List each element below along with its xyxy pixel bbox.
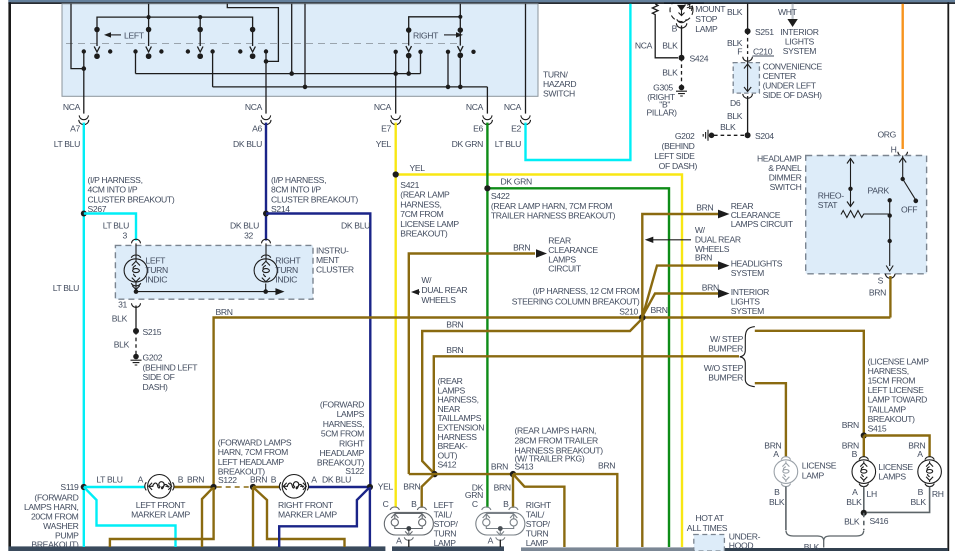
wire contact to crossover bus lower bbox=[212, 52, 214, 87]
w/ step bumper label bbox=[708, 334, 743, 354]
pin label A (left tail) bbox=[396, 535, 402, 545]
svg-text:F: F bbox=[737, 46, 742, 56]
svg-text:CLUSTER BREAKOUT): CLUSTER BREAKOUT) bbox=[271, 194, 358, 204]
svg-text:LAMPS: LAMPS bbox=[337, 409, 365, 419]
wire BLK pin31 to S215 bbox=[135, 306, 137, 332]
wire BLK S251 to C210 dashed bbox=[747, 31, 749, 54]
svg-text:BREAKOUT): BREAKOUT) bbox=[400, 229, 448, 239]
brace step bumper options bbox=[740, 327, 755, 387]
wire color label YEL (branch) bbox=[410, 163, 426, 173]
pin label A (right marker) bbox=[311, 475, 317, 485]
left bank bus wire bbox=[97, 17, 253, 29]
wire color label ORG bbox=[877, 129, 896, 139]
rear clearance lamps circuit label (right) bbox=[731, 201, 794, 229]
wire WHT stub bbox=[791, 4, 793, 19]
bottom dark bar (right segment) bbox=[709, 548, 948, 551]
svg-text:SYSTEM: SYSTEM bbox=[783, 46, 816, 56]
wire color label LT BLU (branch) bbox=[103, 221, 129, 231]
svg-text:S416: S416 bbox=[870, 516, 889, 526]
svg-text:BLK: BLK bbox=[662, 40, 678, 50]
svg-text:TURN: TURN bbox=[434, 529, 457, 539]
wire DK BLU junction jog left to bottom bbox=[279, 488, 369, 547]
svg-text:BLK: BLK bbox=[844, 517, 860, 527]
splice S214 bbox=[263, 211, 269, 217]
svg-text:PILLAR): PILLAR) bbox=[647, 108, 678, 118]
wire BRN S415 to right license lamp bbox=[864, 436, 930, 457]
svg-text:BRN: BRN bbox=[250, 475, 267, 485]
svg-text:HARN, 7CM FROM: HARN, 7CM FROM bbox=[218, 447, 288, 457]
svg-text:E2: E2 bbox=[511, 124, 521, 134]
svg-text:A6: A6 bbox=[252, 124, 262, 134]
rheostat wiper arrow bbox=[847, 159, 854, 207]
wire movable right1 to crossover upper bbox=[408, 56, 410, 74]
NCA label wire E6 bbox=[466, 102, 484, 112]
svg-text:LAMPS: LAMPS bbox=[878, 472, 906, 482]
svg-text:W/: W/ bbox=[695, 225, 706, 235]
svg-text:LEFT: LEFT bbox=[145, 256, 166, 266]
svg-text:HARNESS,: HARNESS, bbox=[323, 419, 364, 429]
wire BLK brace to underhood bbox=[823, 541, 825, 548]
svg-text:31: 31 bbox=[118, 300, 127, 310]
svg-text:BRN: BRN bbox=[651, 305, 668, 315]
svg-text:RH: RH bbox=[932, 489, 944, 499]
w/o step bumper label bbox=[704, 363, 744, 383]
wire color label DK BLU (A6) bbox=[233, 139, 262, 149]
wire E2 through-wire from top bar bbox=[525, 4, 527, 114]
svg-text:4CM INTO I/P: 4CM INTO I/P bbox=[88, 185, 138, 195]
svg-text:LICENSE LAMP: LICENSE LAMP bbox=[400, 219, 459, 229]
pin label E2 bbox=[511, 124, 521, 134]
svg-text:LH: LH bbox=[867, 489, 877, 499]
svg-text:LAMP: LAMP bbox=[526, 538, 549, 548]
fixed contacts right bank bbox=[394, 50, 476, 54]
pin label E7 bbox=[381, 124, 391, 134]
turn/hazard switch label bbox=[543, 70, 576, 99]
svg-text:BRN: BRN bbox=[446, 319, 463, 329]
svg-text:DUAL REAR: DUAL REAR bbox=[695, 235, 741, 245]
S122 callout text (left) bbox=[218, 438, 292, 477]
svg-text:HEADLAMP: HEADLAMP bbox=[757, 154, 802, 164]
svg-text:DK BLU: DK BLU bbox=[341, 221, 370, 231]
wire movable right2 to crossover lower bbox=[459, 55, 461, 87]
svg-text:RIGHT FRONT: RIGHT FRONT bbox=[278, 500, 334, 510]
wire BLK left tail pin A to bottom bbox=[408, 540, 410, 547]
pin label E6 bbox=[473, 124, 483, 134]
wire BRN w/ step bumper to S415 bbox=[755, 331, 864, 436]
svg-text:NCA: NCA bbox=[63, 102, 81, 112]
svg-text:BLK: BLK bbox=[769, 497, 785, 507]
node on crossover lower at movable bbox=[458, 85, 463, 90]
wire BRN S413 to right tail pin B bbox=[512, 474, 514, 508]
wire YEL E7 vertical bbox=[395, 123, 397, 508]
svg-text:INTERIOR: INTERIOR bbox=[731, 287, 769, 297]
wire color label BLK (right license) bbox=[911, 497, 927, 507]
svg-text:S: S bbox=[878, 275, 884, 285]
crossover bus upper wire bbox=[136, 73, 421, 75]
wire BRN S210 diagonal to taillamp run bbox=[422, 319, 642, 474]
svg-text:G305: G305 bbox=[653, 83, 673, 93]
mount stop lamp label bbox=[695, 4, 726, 34]
svg-text:DUAL REAR: DUAL REAR bbox=[421, 285, 467, 295]
right tail lamp label bbox=[526, 500, 552, 548]
S122 label (first) bbox=[218, 475, 237, 485]
splice S251 bbox=[745, 27, 775, 37]
NCA label (stop lamp) bbox=[635, 40, 653, 50]
svg-text:A: A bbox=[488, 535, 494, 545]
wire BLK left license down bbox=[785, 487, 787, 531]
splice S122 second node bbox=[250, 484, 256, 490]
wire BRN second node to right marker bbox=[253, 486, 279, 488]
svg-text:STEERING COLUMN BREAKOUT): STEERING COLUMN BREAKOUT) bbox=[512, 297, 640, 307]
hot at all times label bbox=[687, 513, 728, 533]
svg-text:(BEHIND: (BEHIND bbox=[662, 141, 695, 151]
splice S416 bbox=[861, 510, 867, 516]
right bank bus wire bbox=[409, 17, 461, 30]
svg-text:HOOD: HOOD bbox=[729, 541, 754, 551]
headlamp dimmer switch box bbox=[806, 156, 927, 274]
svg-text:BRN: BRN bbox=[403, 482, 420, 492]
wire color label LT BLU (A7) bbox=[54, 139, 80, 149]
inline connector wire E6 bbox=[482, 115, 492, 124]
svg-text:H: H bbox=[891, 144, 897, 154]
svg-text:INDIC: INDIC bbox=[275, 275, 297, 285]
svg-text:STOP/: STOP/ bbox=[526, 519, 551, 529]
OFF label bbox=[901, 204, 917, 214]
svg-text:8CM INTO I/P: 8CM INTO I/P bbox=[271, 185, 321, 195]
arrow rear clearance lamps circuit (right) bbox=[718, 210, 730, 219]
wire color label BLK (S424) bbox=[662, 67, 678, 77]
page left border bbox=[8, 0, 11, 551]
wire color label BRN (right license) bbox=[908, 440, 925, 450]
svg-text:BREAKOUT): BREAKOUT) bbox=[31, 539, 79, 549]
wire color label BRN (S413 right) bbox=[598, 461, 615, 471]
wire BRN S413 diagonal jog to bottom bbox=[514, 475, 564, 547]
wire color label BLK (S416) bbox=[844, 517, 860, 527]
wire color label DK GRN (branch) bbox=[501, 177, 533, 187]
svg-text:(I/P HARNESS, 12 CM FROM: (I/P HARNESS, 12 CM FROM bbox=[533, 286, 640, 296]
svg-text:32: 32 bbox=[244, 230, 253, 240]
G202 right label bbox=[654, 131, 697, 171]
S210 label bbox=[619, 306, 638, 316]
splice S122 (first) bbox=[211, 484, 217, 490]
svg-text:MARKER LAMP: MARKER LAMP bbox=[278, 509, 337, 519]
wire YEL branch to right bbox=[396, 175, 682, 548]
left license lamp bbox=[774, 457, 798, 487]
svg-text:PARK: PARK bbox=[868, 186, 890, 196]
underhood label bbox=[729, 532, 761, 551]
svg-text:HARNESS,: HARNESS, bbox=[868, 366, 909, 376]
inline connector wire E2 bbox=[521, 115, 531, 124]
svg-text:(LICENSE LAMP: (LICENSE LAMP bbox=[868, 356, 930, 366]
svg-text:TAIL/: TAIL/ bbox=[526, 510, 545, 520]
svg-text:SYSTEM: SYSTEM bbox=[731, 268, 764, 278]
svg-text:5CM FROM: 5CM FROM bbox=[321, 429, 364, 439]
wire DK BLU junction down bbox=[369, 487, 371, 547]
node left tail common bbox=[406, 526, 411, 531]
svg-text:W/ STEP: W/ STEP bbox=[710, 334, 744, 344]
svg-text:LEFT FRONT: LEFT FRONT bbox=[136, 500, 187, 510]
bottom gray bar (middle segment) bbox=[521, 547, 709, 551]
wire BLK S424 to G305 dashed bbox=[681, 58, 683, 86]
svg-text:D6: D6 bbox=[730, 98, 741, 108]
node lower park wire bbox=[888, 239, 892, 243]
wire color label BLK (D6) bbox=[727, 111, 743, 121]
wire DK BLU A6 vertical bbox=[265, 123, 267, 241]
node right tail common bbox=[498, 526, 503, 531]
interior lights system label (top) bbox=[780, 27, 818, 56]
svg-text:SIDE OF: SIDE OF bbox=[143, 372, 175, 382]
wire BRN main run bbox=[214, 318, 891, 488]
wire color label DK GRN (E6) bbox=[452, 139, 484, 149]
pin H label bbox=[891, 144, 897, 154]
pin label A (center license below) bbox=[852, 487, 858, 497]
wire color label BLK (left license) bbox=[769, 497, 785, 507]
wire DK BLU right marker to junction bbox=[309, 486, 370, 488]
LEFT direction label bbox=[104, 31, 145, 41]
svg-text:BLK: BLK bbox=[804, 542, 820, 551]
svg-text:NCA: NCA bbox=[466, 102, 484, 112]
svg-text:B: B bbox=[672, 24, 678, 34]
ground G202 right bbox=[703, 130, 714, 141]
wire color label BLK (S215) bbox=[114, 339, 130, 349]
svg-text:(REAR LAMP: (REAR LAMP bbox=[400, 190, 450, 200]
inline connector wire E7 bbox=[391, 115, 401, 124]
left front marker lamp bbox=[145, 475, 174, 499]
wire LT BLU S119 jog down bbox=[84, 487, 176, 547]
svg-text:LIGHTS: LIGHTS bbox=[731, 297, 761, 307]
convenience center internal wire bbox=[744, 57, 751, 92]
wire color label BLK (stop lamp) bbox=[662, 40, 678, 50]
S119 callout text bbox=[24, 492, 79, 549]
node on crossover upper at movable bbox=[406, 71, 411, 76]
svg-text:RIGHT: RIGHT bbox=[275, 256, 301, 266]
svg-text:(FORWARD: (FORWARD bbox=[34, 492, 78, 502]
wire E7 contact to box exit bbox=[395, 52, 397, 114]
wire contact to crossover bus upper bbox=[135, 52, 137, 74]
svg-text:S204: S204 bbox=[755, 131, 774, 141]
wire BLK S416 down dashed bbox=[863, 513, 865, 530]
wire color label BRN (right tail B) bbox=[494, 482, 511, 492]
pin label B (left tail) bbox=[411, 499, 417, 509]
C210 connector symbol bbox=[743, 57, 753, 61]
wire LT BLU A7 vertical bbox=[83, 123, 85, 547]
svg-text:SWITCH: SWITCH bbox=[543, 89, 575, 99]
wire color label BLK (center license) bbox=[846, 497, 862, 507]
svg-text:BLK: BLK bbox=[727, 111, 743, 121]
wire color label YEL (tail C) bbox=[378, 482, 394, 492]
wire BLK S215 to G202 dashed bbox=[135, 331, 137, 355]
svg-text:LAMPS CIRCUIT: LAMPS CIRCUIT bbox=[731, 219, 794, 229]
pin label C (left tail) bbox=[383, 499, 389, 509]
svg-text:MOUNT: MOUNT bbox=[695, 4, 726, 14]
S421 callout text bbox=[400, 180, 459, 239]
node park contact bbox=[888, 198, 892, 202]
svg-text:A: A bbox=[917, 449, 923, 459]
svg-text:ORG: ORG bbox=[877, 129, 896, 139]
svg-text:RIGHT: RIGHT bbox=[413, 30, 439, 40]
svg-text:TURN: TURN bbox=[145, 265, 168, 275]
svg-text:BLK: BLK bbox=[112, 314, 128, 324]
RH label bbox=[932, 489, 944, 499]
svg-text:LIGHTS: LIGHTS bbox=[785, 37, 815, 47]
svg-text:DK BLU: DK BLU bbox=[233, 139, 262, 149]
svg-text:28CM FROM TRAILER: 28CM FROM TRAILER bbox=[515, 435, 598, 445]
svg-text:LEFT SIDE: LEFT SIDE bbox=[654, 151, 695, 161]
annotation w/ dual rear wheels (right) bbox=[645, 237, 691, 243]
svg-text:(W/ TRAILER PKG): (W/ TRAILER PKG) bbox=[515, 453, 585, 463]
underhood fuse box bbox=[694, 535, 725, 551]
svg-text:BRN: BRN bbox=[842, 420, 859, 430]
svg-text:(BEHIND LEFT: (BEHIND LEFT bbox=[143, 363, 199, 373]
wire color label LT BLU (mid) bbox=[53, 283, 79, 293]
svg-text:(REAR LAMP HARN, 7CM FROM: (REAR LAMP HARN, 7CM FROM bbox=[491, 201, 612, 211]
center high mount stop lamp bbox=[670, 0, 693, 28]
svg-text:LT BLU: LT BLU bbox=[54, 139, 80, 149]
right tail/stop/turn lamp bbox=[476, 507, 525, 540]
wire LT BLU branch to cluster pin 3 bbox=[84, 214, 136, 241]
wire BLK D6 to S204 bbox=[747, 96, 749, 135]
wire BRN S413 right to bottom bbox=[513, 474, 617, 547]
inline connector wire A7 bbox=[79, 115, 89, 124]
svg-text:WASHER: WASHER bbox=[43, 521, 78, 531]
wire BRN S210 down to bottom bbox=[641, 318, 643, 548]
splice S413 bbox=[510, 471, 516, 477]
wire BLK right license to S416 bbox=[867, 487, 930, 513]
splice S119 bbox=[81, 484, 87, 490]
svg-text:3: 3 bbox=[123, 230, 128, 240]
license lamp harness callout text bbox=[868, 356, 930, 433]
svg-text:YEL: YEL bbox=[378, 482, 394, 492]
svg-text:C: C bbox=[383, 499, 389, 509]
svg-text:DK BLU: DK BLU bbox=[230, 221, 259, 231]
pin 3 label bbox=[123, 230, 128, 240]
arrow interior lights system bbox=[718, 289, 730, 298]
svg-text:BLK: BLK bbox=[911, 497, 927, 507]
wire color label BRN (left license) bbox=[764, 440, 781, 450]
wire E6 exit from crossover lower bbox=[486, 87, 488, 114]
svg-text:LT BLU: LT BLU bbox=[103, 221, 129, 231]
pin 32 connector bbox=[262, 239, 271, 243]
bottom dark bar (left segment) bbox=[8, 546, 385, 551]
svg-text:LEFT LICENSE: LEFT LICENSE bbox=[868, 385, 925, 395]
svg-text:OF DASH): OF DASH) bbox=[659, 161, 698, 171]
svg-text:E7: E7 bbox=[381, 124, 391, 134]
splice S210 bbox=[639, 314, 646, 321]
wire color label BRN (S) bbox=[869, 288, 886, 298]
w/ dual rear wheels label (left) bbox=[421, 275, 467, 305]
svg-text:A: A bbox=[852, 487, 858, 497]
svg-text:BREAKOUT): BREAKOUT) bbox=[868, 414, 916, 424]
svg-text:NCA: NCA bbox=[245, 102, 263, 112]
top bar patch over stop lamp bbox=[664, 0, 704, 4]
splice S267 bbox=[81, 211, 87, 217]
wire contact to crossover upper right end bbox=[420, 52, 422, 74]
instrument cluster box bbox=[115, 245, 313, 299]
node DK BLU junction bbox=[367, 484, 373, 490]
interior lights system label (lower) bbox=[731, 287, 769, 316]
pin label A6 bbox=[252, 124, 262, 134]
annotation rear clearance left: wire with arrow bbox=[409, 249, 547, 474]
left front marker lamp label bbox=[131, 500, 190, 520]
svg-text:OFF: OFF bbox=[901, 204, 917, 214]
wire BLK center license to S416 bbox=[863, 487, 865, 513]
svg-text:20CM FROM: 20CM FROM bbox=[31, 512, 79, 522]
svg-text:LAMP: LAMP bbox=[434, 538, 457, 548]
node right lamp to bus bbox=[263, 289, 268, 294]
svg-text:BLK: BLK bbox=[114, 339, 130, 349]
svg-text:SYSTEM: SYSTEM bbox=[731, 306, 764, 316]
svg-text:S415: S415 bbox=[868, 424, 887, 434]
wire DK BLU branch right bbox=[266, 214, 370, 488]
wire color label BLK (S204) bbox=[720, 122, 736, 132]
svg-text:BRN: BRN bbox=[187, 475, 204, 485]
wire A7 contact to box exit bbox=[83, 52, 85, 114]
wire top bar jog to A6 node bbox=[227, 4, 278, 62]
node left lamp to bus bbox=[134, 289, 139, 294]
node A6 junction bbox=[264, 59, 269, 64]
arrow to interior lights system (top) bbox=[787, 19, 797, 27]
headlights system label bbox=[731, 259, 783, 279]
RIGHT direction label bbox=[413, 30, 463, 40]
svg-text:G202: G202 bbox=[675, 131, 695, 141]
NCA label wire A7 bbox=[63, 102, 81, 112]
svg-text:LICENSE: LICENSE bbox=[802, 461, 837, 471]
dimmer switch blade input bbox=[899, 156, 906, 180]
wire A6 contact to box exit bbox=[265, 52, 267, 114]
svg-text:& PANEL: & PANEL bbox=[768, 163, 802, 173]
wire BRN S210 to interior lights system bbox=[643, 294, 719, 317]
svg-text:BRN: BRN bbox=[446, 345, 463, 355]
wire color label BRN (second) bbox=[250, 475, 267, 485]
left bank branch wire bbox=[199, 17, 201, 29]
svg-text:(I/P HARNESS,: (I/P HARNESS, bbox=[88, 175, 143, 185]
splice S215 bbox=[133, 327, 162, 337]
svg-text:BUMPER: BUMPER bbox=[708, 343, 743, 353]
svg-text:HARNESS,: HARNESS, bbox=[400, 199, 441, 209]
svg-text:A7: A7 bbox=[70, 124, 80, 134]
license lamp label bbox=[802, 461, 837, 481]
svg-text:BRN: BRN bbox=[513, 242, 530, 252]
wire BLK top to S251 bbox=[747, 4, 749, 32]
annotation w/ dual rear wheels (left) arrow bbox=[411, 289, 420, 295]
svg-text:(FORWARD LAMPS: (FORWARD LAMPS bbox=[218, 438, 292, 448]
svg-text:A: A bbox=[396, 535, 402, 545]
wire BRN S412 to left tail pin B bbox=[422, 475, 434, 508]
svg-text:S122: S122 bbox=[345, 466, 364, 476]
wire BRN S412 horizontal to S413 bbox=[409, 473, 513, 475]
wire color label BRN (rear clearance left) bbox=[513, 242, 530, 252]
svg-text:RIGHT: RIGHT bbox=[339, 438, 365, 448]
svg-text:YEL: YEL bbox=[376, 139, 392, 149]
svg-text:BLK: BLK bbox=[846, 497, 862, 507]
S214 callout text bbox=[271, 175, 358, 214]
svg-text:BLK: BLK bbox=[720, 122, 736, 132]
svg-text:B: B bbox=[918, 487, 924, 497]
svg-text:DASH): DASH) bbox=[143, 382, 169, 392]
pin label B (center license) bbox=[852, 449, 858, 459]
right turn indic label bbox=[275, 256, 301, 285]
pin label B (stop lamp) bbox=[672, 24, 678, 34]
pin label B (right marker) bbox=[271, 475, 277, 485]
wire color label BRN (license run) bbox=[446, 345, 463, 355]
splice S424 bbox=[679, 54, 709, 64]
svg-text:LICENSE: LICENSE bbox=[878, 462, 913, 472]
svg-text:15CM FROM: 15CM FROM bbox=[868, 376, 916, 386]
svg-text:BLK: BLK bbox=[662, 67, 678, 77]
svg-text:S215: S215 bbox=[143, 327, 162, 337]
svg-text:C: C bbox=[472, 499, 478, 509]
pin label A (left marker) bbox=[138, 475, 144, 485]
